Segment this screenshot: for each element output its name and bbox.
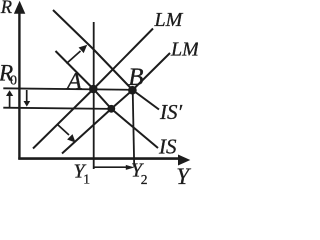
svg-text:2: 2 xyxy=(141,172,148,187)
vertical axis R xyxy=(14,1,25,160)
svg-text:1: 1 xyxy=(83,172,90,187)
LM' curve (through C and B) xyxy=(62,53,170,154)
small up arrow left of axis xyxy=(6,90,13,107)
second (lower R) horizontal line xyxy=(3,108,111,109)
node A dot xyxy=(89,85,98,94)
shift arrow LM to LM' (SE) xyxy=(58,125,76,143)
svg-text:IS′: IS′ xyxy=(159,100,182,124)
LM curve (through A) xyxy=(33,29,153,149)
svg-text:IS: IS xyxy=(158,134,177,158)
small down arrow right of axis xyxy=(24,90,31,107)
IS' curve (through B) xyxy=(53,10,159,110)
Y2 vertical line xyxy=(133,90,135,167)
node C dot (intermediate) xyxy=(107,105,115,113)
IS curve (through A and C) xyxy=(56,51,159,148)
R0 horizontal line xyxy=(3,88,132,90)
svg-text:R: R xyxy=(0,0,12,18)
Y1 vertical line xyxy=(93,22,95,169)
svg-text:LM: LM xyxy=(154,9,184,31)
below-axis arrow Y1 to Y2 xyxy=(95,165,135,170)
node B dot xyxy=(128,86,137,95)
svg-text:Y: Y xyxy=(176,164,191,187)
svg-text:A: A xyxy=(65,68,83,95)
horizontal axis Y xyxy=(18,155,190,166)
svg-text:B: B xyxy=(128,64,143,91)
svg-text:LM: LM xyxy=(170,38,198,60)
shift arrow IS to IS' (NE) xyxy=(67,45,88,64)
svg-text:0: 0 xyxy=(10,74,17,89)
